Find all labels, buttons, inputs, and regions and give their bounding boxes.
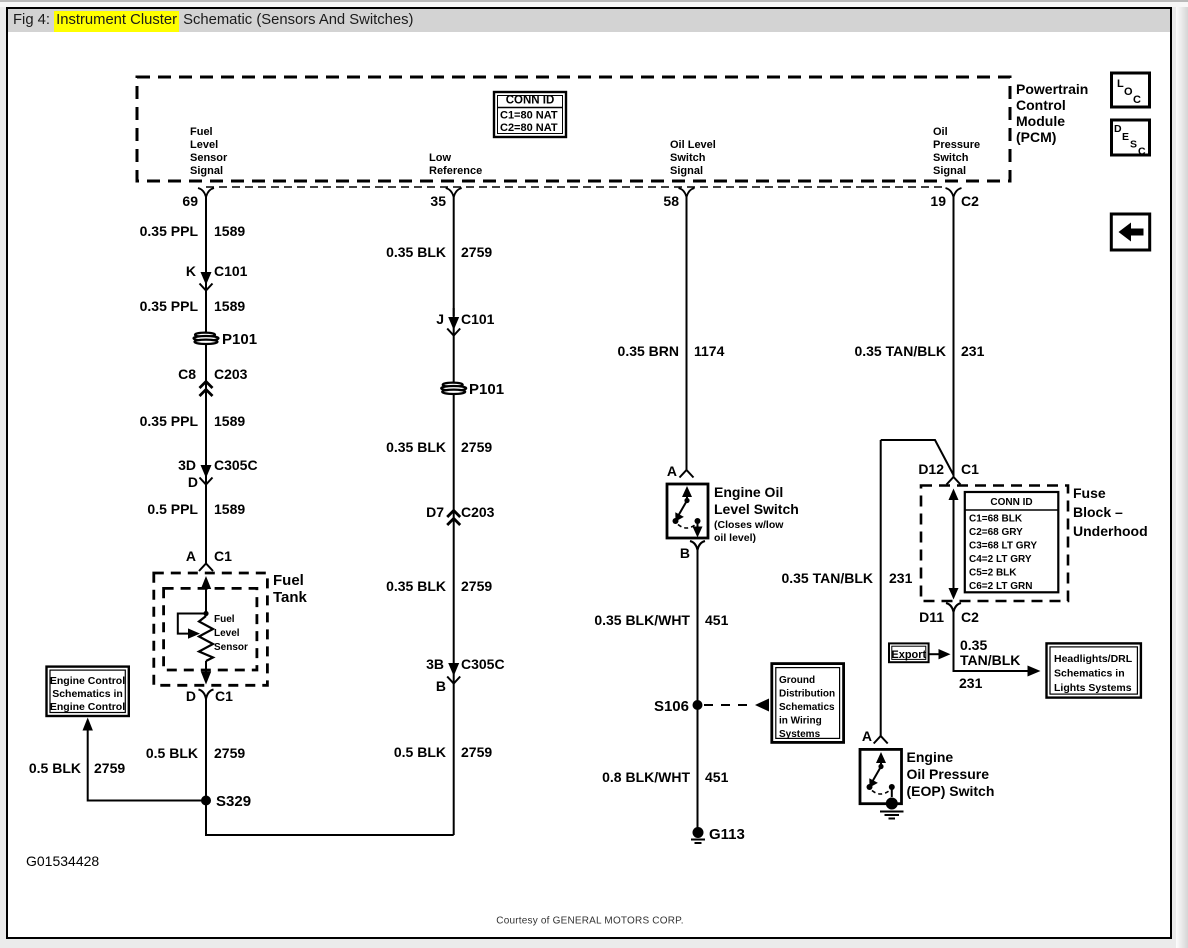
svg-text:(PCM): (PCM) — [1016, 129, 1056, 145]
svg-text:D: D — [1114, 123, 1122, 135]
pin 58 connector — [679, 188, 695, 197]
svg-text:2759: 2759 — [461, 439, 492, 455]
svg-text:Sensor: Sensor — [190, 152, 228, 164]
svg-text:C1: C1 — [214, 548, 232, 564]
svg-text:Oil Pressure: Oil Pressure — [907, 766, 990, 782]
svg-text:Control: Control — [1016, 97, 1066, 113]
EOP switch box — [860, 749, 902, 803]
svg-text:G113: G113 — [709, 826, 745, 843]
svg-text:Fuse: Fuse — [1073, 485, 1106, 501]
svg-text:Module: Module — [1016, 113, 1065, 129]
svg-text:Engine Oil: Engine Oil — [714, 484, 783, 500]
svg-text:TAN/BLK: TAN/BLK — [960, 652, 1020, 668]
wire: 0.5 BLK 2759 from tank to S329 and bottom — [206, 698, 454, 835]
svg-text:Distribution: Distribution — [779, 689, 835, 700]
svg-text:S106: S106 — [654, 698, 689, 715]
svg-text:3B: 3B — [426, 656, 444, 672]
svg-text:S: S — [1130, 139, 1137, 151]
svg-text:0.5 BLK: 0.5 BLK — [29, 760, 81, 776]
svg-text:2759: 2759 — [461, 744, 492, 760]
svg-text:0.35 BLK/WHT: 0.35 BLK/WHT — [594, 612, 690, 628]
svg-text:A: A — [186, 548, 196, 564]
DESC icon — [1112, 120, 1150, 155]
splice S329 — [201, 796, 211, 806]
svg-text:1589: 1589 — [214, 501, 245, 517]
svg-text:C: C — [1138, 146, 1146, 158]
svg-text:Switch: Switch — [933, 152, 969, 164]
svg-text:in Wiring: in Wiring — [779, 716, 822, 727]
svg-text:(EOP) Switch: (EOP) Switch — [907, 783, 995, 799]
svg-text:Ground: Ground — [779, 675, 815, 686]
connector C101 terminal K (male/female inline) — [200, 262, 213, 291]
svg-text:0.5 PPL: 0.5 PPL — [147, 501, 198, 517]
wire: oil pressure switch signal, pin 19 down — [953, 196, 955, 477]
svg-text:C1: C1 — [961, 461, 979, 477]
svg-text:D11: D11 — [919, 609, 944, 625]
svg-text:E: E — [1122, 131, 1129, 143]
connector C203 terminal C8 (up chevrons) — [200, 382, 213, 397]
svg-text:B: B — [680, 545, 690, 561]
svg-text:451: 451 — [705, 612, 729, 628]
svg-text:Engine Control: Engine Control — [50, 701, 125, 713]
svg-text:Level Switch: Level Switch — [714, 501, 799, 517]
reference box: Engine Control Schematics in Engine Control — [47, 667, 129, 716]
connector C1 terminal A (chevron above fuel tank) — [199, 564, 213, 572]
svg-text:Engine: Engine — [907, 749, 954, 765]
Export arrow — [929, 653, 940, 655]
svg-text:2759: 2759 — [461, 578, 492, 594]
svg-text:C305C: C305C — [214, 457, 258, 473]
connector C101 terminal J — [447, 308, 460, 336]
svg-text:0.5 BLK: 0.5 BLK — [146, 745, 198, 761]
svg-text:Powertrain: Powertrain — [1016, 81, 1088, 97]
engine oil level switch box — [667, 484, 708, 538]
svg-text:K: K — [186, 263, 196, 279]
svg-text:Oil Level: Oil Level — [670, 139, 716, 151]
fuel level sensor: resistor zigzag — [199, 616, 213, 661]
svg-text:231: 231 — [961, 343, 985, 359]
svg-text:C8: C8 — [178, 366, 196, 382]
svg-text:0.35 BLK: 0.35 BLK — [386, 439, 446, 455]
svg-text:0.35 PPL: 0.35 PPL — [140, 413, 199, 429]
svg-text:Systems: Systems — [779, 729, 821, 740]
connector C305C terminal 3B (down arrow + chevron) — [447, 663, 460, 684]
svg-text:2759: 2759 — [214, 745, 245, 761]
svg-text:Signal: Signal — [670, 165, 703, 177]
svg-text:0.5 BLK: 0.5 BLK — [394, 744, 446, 760]
svg-text:CONN ID: CONN ID — [990, 497, 1032, 508]
svg-text:C1=68 BLK: C1=68 BLK — [969, 514, 1023, 525]
svg-text:2759: 2759 — [461, 244, 492, 260]
pin 35 connector — [446, 188, 462, 197]
svg-text:58: 58 — [663, 193, 679, 209]
svg-text:L: L — [1117, 78, 1124, 90]
svg-text:Fuel: Fuel — [214, 614, 235, 625]
svg-text:Tank: Tank — [273, 589, 308, 606]
svg-text:Engine Control: Engine Control — [50, 675, 125, 687]
svg-text:C2: C2 — [961, 609, 979, 625]
connector C1 terminal D (female Y below tank) — [199, 690, 214, 700]
oil level switch contacts — [673, 486, 703, 538]
terminal A chevron at EOP switch — [874, 736, 888, 744]
wire: fuel level sensor signal, pin 69 to C101 — [205, 196, 207, 563]
svg-text:D: D — [188, 474, 198, 490]
svg-text:J: J — [436, 311, 444, 327]
svg-text:C305C: C305C — [461, 656, 505, 672]
terminal chevron D12/C1 above fuse block — [947, 477, 961, 485]
splice P101 (wire 2) — [441, 383, 466, 394]
svg-text:0.35 TAN/BLK: 0.35 TAN/BLK — [781, 570, 873, 586]
svg-text:0.8 BLK/WHT: 0.8 BLK/WHT — [602, 769, 690, 785]
svg-text:0.35: 0.35 — [960, 637, 987, 653]
terminal B female Y below oil level switch — [690, 541, 705, 550]
svg-text:A: A — [862, 728, 872, 744]
svg-text:Fuel: Fuel — [190, 126, 213, 138]
svg-text:35: 35 — [430, 193, 446, 209]
svg-text:B: B — [436, 678, 446, 694]
wire: oil level switch signal, pin 58 down — [686, 196, 688, 470]
svg-text:C2: C2 — [961, 193, 979, 209]
splice S106 — [693, 700, 703, 710]
svg-text:C203: C203 — [461, 504, 495, 520]
svg-text:0.35 PPL: 0.35 PPL — [140, 223, 199, 239]
reference arrowhead — [755, 699, 769, 712]
svg-text:Block –: Block – — [1073, 504, 1123, 520]
svg-text:Reference: Reference — [429, 165, 482, 177]
svg-text:1589: 1589 — [214, 223, 245, 239]
svg-text:0.35 BLK: 0.35 BLK — [386, 244, 446, 260]
connector C203 terminal D7 (up chevrons) — [447, 511, 460, 526]
fuel level sensor: up arrow into tank — [201, 576, 211, 613]
svg-text:69: 69 — [182, 193, 198, 209]
wire branch down to EOP switch — [880, 440, 882, 736]
svg-text:oil level): oil level) — [714, 532, 756, 544]
svg-text:Export: Export — [891, 649, 926, 661]
svg-text:Signal: Signal — [933, 165, 966, 177]
svg-text:C3=68 LT GRY: C3=68 LT GRY — [969, 541, 1037, 552]
PCM dashed box — [137, 77, 1010, 181]
svg-text:3D: 3D — [178, 457, 196, 473]
wire branch to EOP switch (horizontal + diagonal) — [881, 440, 954, 475]
pin 69 connector — [198, 188, 214, 197]
svg-text:C1: C1 — [215, 688, 233, 704]
svg-text:0.35 TAN/BLK: 0.35 TAN/BLK — [854, 343, 946, 359]
svg-text:Signal: Signal — [190, 165, 223, 177]
svg-text:Oil: Oil — [933, 126, 948, 138]
fuel level sensor: down arrow to tank bottom — [201, 661, 211, 685]
fuel tank outer dashed box — [154, 573, 268, 685]
svg-text:(Closes w/low: (Closes w/low — [714, 519, 784, 531]
ground at EOP switch — [880, 798, 904, 819]
svg-text:C203: C203 — [214, 366, 248, 382]
back arrow icon — [1111, 214, 1149, 250]
svg-text:19: 19 — [930, 193, 946, 209]
reference box: Ground Distribution Schematics in Wiring Systems — [772, 664, 844, 743]
svg-text:C6=2 LT GRN: C6=2 LT GRN — [969, 581, 1032, 592]
svg-text:Pressure: Pressure — [933, 139, 980, 151]
svg-text:C5=2 BLK: C5=2 BLK — [969, 568, 1017, 579]
svg-text:D: D — [186, 688, 196, 704]
svg-text:1589: 1589 — [214, 298, 245, 314]
svg-text:0.35 BLK: 0.35 BLK — [386, 578, 446, 594]
svg-text:451: 451 — [705, 769, 729, 785]
svg-text:C2=80 NAT: C2=80 NAT — [500, 122, 558, 134]
svg-text:D7: D7 — [426, 504, 444, 520]
ground G113 — [691, 827, 705, 843]
svg-text:0.35 PPL: 0.35 PPL — [140, 298, 199, 314]
svg-text:2759: 2759 — [94, 760, 125, 776]
svg-text:Switch: Switch — [670, 152, 706, 164]
svg-text:1174: 1174 — [694, 343, 725, 359]
svg-text:CONN ID: CONN ID — [506, 95, 555, 107]
dashed reference line from S106 — [704, 704, 754, 706]
svg-text:D12: D12 — [918, 461, 944, 477]
svg-text:C1=80 NAT: C1=80 NAT — [500, 110, 558, 122]
EOP switch contacts — [867, 752, 895, 797]
svg-text:Fuel: Fuel — [273, 572, 304, 589]
fuse block underhood dashed box — [921, 486, 1068, 602]
svg-text:P101: P101 — [222, 331, 257, 348]
svg-text:S329: S329 — [216, 793, 251, 810]
svg-text:Schematics in: Schematics in — [52, 688, 123, 700]
svg-text:C: C — [1133, 94, 1141, 106]
svg-text:Low: Low — [429, 152, 451, 164]
svg-text:0.35 BRN: 0.35 BRN — [618, 343, 679, 359]
svg-text:Lights Systems: Lights Systems — [1054, 682, 1132, 694]
svg-text:1589: 1589 — [214, 413, 245, 429]
svg-text:231: 231 — [889, 570, 913, 586]
wire: 0.35 BLK/WHT 451 down to G113 — [697, 549, 699, 828]
svg-text:A: A — [667, 463, 677, 479]
svg-text:Schematics: Schematics — [779, 702, 835, 713]
LOC icon — [1112, 73, 1150, 107]
svg-text:G01534428: G01534428 — [26, 853, 99, 869]
fuse block internal double arrow — [949, 489, 959, 600]
splice P101 (wire 1) — [194, 333, 219, 344]
connector C305C terminal 3D (down arrow + chevron) — [200, 465, 213, 485]
wire: low reference, pin 35 down — [453, 196, 455, 835]
svg-text:C2=68 GRY: C2=68 GRY — [969, 527, 1023, 538]
wire: 0.35 TAN/BLK 231 to headlights reference — [954, 611, 1029, 671]
CONN ID box (fuse block) — [965, 492, 1059, 592]
svg-text:Underhood: Underhood — [1073, 523, 1148, 539]
Export box — [889, 643, 929, 662]
svg-text:Headlights/DRL: Headlights/DRL — [1054, 653, 1133, 665]
wire branch to engine control reference — [88, 724, 206, 801]
svg-text:C101: C101 — [214, 263, 248, 279]
svg-text:231: 231 — [959, 675, 983, 691]
PCM connector face dotted line C1/C2 — [206, 186, 946, 188]
svg-text:Sensor: Sensor — [214, 642, 248, 653]
svg-text:O: O — [1124, 86, 1133, 98]
pin 19 connector — [946, 188, 962, 197]
terminal D11/C2 female Y below fuse block — [946, 603, 961, 612]
svg-text:Schematics in: Schematics in — [1054, 668, 1125, 680]
svg-text:Level: Level — [190, 139, 218, 151]
svg-text:Courtesy of GENERAL MOTORS COR: Courtesy of GENERAL MOTORS CORP. — [496, 916, 683, 927]
svg-text:C4=2 LT GRY: C4=2 LT GRY — [969, 554, 1032, 565]
terminal A chevron at oil level switch — [680, 470, 694, 478]
fuel level sensor: wiper loop arrow — [178, 611, 209, 639]
svg-text:Level: Level — [214, 628, 240, 639]
reference box: Headlights/DRL Schematics in Lights Systems — [1047, 643, 1141, 697]
svg-text:C101: C101 — [461, 311, 495, 327]
fuel tank inner dashed box — [164, 588, 257, 670]
CONN ID box (PCM) — [494, 92, 566, 137]
svg-text:P101: P101 — [469, 381, 504, 398]
